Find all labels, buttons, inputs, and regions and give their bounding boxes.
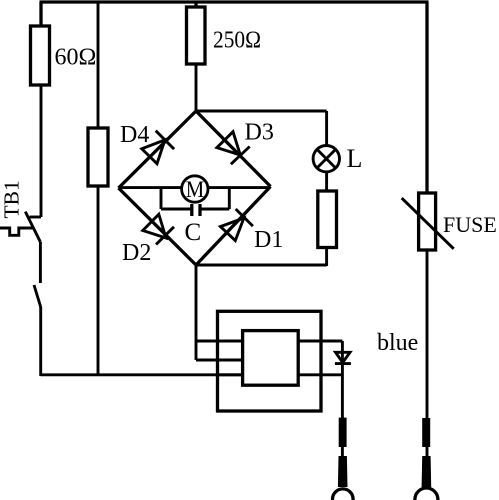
wire left vertical from R 60ohm to switch TB1	[40, 85, 43, 217]
wire bridge arm top-right	[196, 111, 271, 187]
wire lamp to resistor	[325, 171, 328, 192]
plug right sleeve lower	[422, 456, 432, 487]
resistor 250ohm	[187, 7, 206, 64]
lamp L	[313, 146, 339, 172]
wire bridge arm bottom-left	[119, 188, 197, 265]
svg-text:L: L	[347, 144, 363, 173]
fuse FUSE	[402, 193, 454, 250]
wire capacitor bracket bottom right	[201, 208, 230, 211]
capacitor C plates	[192, 204, 200, 216]
svg-text:D3: D3	[245, 120, 274, 146]
svg-text:M: M	[186, 177, 205, 202]
svg-text:D4: D4	[120, 122, 149, 148]
resistor 60ohm	[31, 26, 50, 85]
switch TB1 blade upper	[25, 212, 40, 242]
svg-text:FUSE: FUSE	[443, 212, 497, 237]
wire lamp resistor to bottom node	[325, 248, 328, 267]
resistor unlabeled	[88, 128, 108, 186]
motor M	[182, 176, 208, 202]
plug left sleeve lower	[338, 456, 348, 487]
wire bottom bus into transformer	[218, 373, 243, 376]
wire top horizontal bus	[40, 0, 429, 3]
wire blue lead vertical	[341, 341, 344, 458]
wire from R 250ohm to bridge top node	[195, 64, 198, 112]
wire capacitor bracket bottom left	[161, 208, 191, 211]
switch blade lower	[34, 285, 41, 307]
plug left tip	[333, 489, 354, 500]
switch TB1 fixed contact stub	[30, 216, 42, 219]
wire bottom horizontal to transformer	[41, 373, 243, 376]
wire left vertical between switch blades	[39, 242, 42, 283]
transformer inner box	[243, 331, 299, 386]
wire bridge horizontal left-to-right through motor	[119, 186, 271, 189]
svg-text:blue: blue	[377, 330, 418, 356]
plug right sleeve upper	[422, 418, 430, 447]
terminal TB1 plug symbol	[0, 228, 33, 235]
wire left vertical from top bus to R 60ohm	[39, 2, 42, 27]
wire fuse to plug	[426, 250, 429, 458]
svg-text:C: C	[185, 219, 202, 246]
wire stub top bus to R 250ohm	[194, 2, 197, 8]
svg-text:TB1: TB1	[0, 180, 24, 218]
wire second vertical from top bus to unlabeled resistor	[97, 2, 100, 129]
diode D2	[143, 214, 174, 244]
resistor lamp branch	[318, 191, 337, 248]
transformer outer box	[218, 311, 322, 411]
diode D4	[142, 131, 174, 164]
diode D1	[220, 209, 253, 241]
diode D3	[217, 132, 250, 165]
plug left sleeve upper	[339, 418, 347, 447]
wire transformer secondary lower	[298, 373, 342, 376]
svg-text:250Ω: 250Ω	[213, 28, 261, 54]
wire second vertical from resistor to bottom wire	[97, 186, 100, 375]
wire fuse branch from top bus	[425, 2, 428, 194]
plug right tip	[415, 488, 438, 500]
svg-text:60Ω: 60Ω	[55, 45, 97, 71]
wire transformer primary upper	[196, 340, 243, 343]
svg-text:D2: D2	[122, 240, 151, 266]
wire transformer primary lower	[196, 359, 243, 362]
wire transformer secondary upper	[298, 340, 342, 343]
wire left vertical from lower blade to bottom wire	[39, 307, 42, 376]
wire bridge bottom node to lamp branch	[196, 264, 327, 267]
wire bridge arm top-left	[119, 111, 197, 188]
diode blue lead	[335, 352, 351, 363]
wire bridge arm bottom-right	[196, 187, 271, 266]
wire capacitor bracket left vertical	[160, 188, 163, 209]
wire capacitor bracket right vertical	[228, 188, 231, 209]
svg-text:D1: D1	[254, 227, 283, 253]
wire bridge bottom node down to transformer	[195, 265, 198, 360]
wire bridge top node to lamp branch	[196, 110, 327, 113]
wire lamp branch down to lamp	[325, 111, 328, 147]
